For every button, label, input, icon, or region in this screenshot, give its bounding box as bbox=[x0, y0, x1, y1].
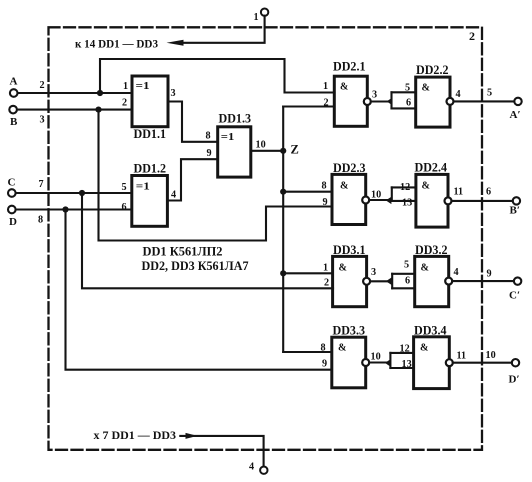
svg-text:4: 4 bbox=[249, 462, 254, 473]
svg-text:5: 5 bbox=[487, 88, 492, 99]
input terminal D bbox=[8, 206, 16, 214]
IC type note bbox=[143, 245, 223, 259]
svg-text:3: 3 bbox=[371, 267, 376, 278]
XOR gate DD1.2 bbox=[132, 176, 168, 227]
svg-text:9: 9 bbox=[207, 148, 212, 159]
svg-text:4: 4 bbox=[454, 267, 459, 278]
svg-text:11: 11 bbox=[454, 187, 464, 198]
terminal A' bbox=[514, 98, 521, 105]
svg-text:4: 4 bbox=[456, 89, 461, 100]
svg-text:&: & bbox=[422, 83, 431, 94]
svg-text:DD1.1: DD1.1 bbox=[134, 127, 167, 141]
wire DD3.3 out bbox=[369, 361, 389, 363]
input terminal B bbox=[9, 106, 17, 114]
junction arrow into DD3.2 bbox=[386, 278, 392, 285]
node C junction bbox=[79, 190, 85, 196]
terminal C' bbox=[514, 277, 521, 284]
svg-text:2: 2 bbox=[40, 80, 45, 91]
wire DD1.3 out (node Z) bbox=[251, 150, 283, 152]
wire Z vertical bus bbox=[282, 107, 284, 353]
svg-text:10: 10 bbox=[486, 350, 496, 361]
svg-text:=1: =1 bbox=[136, 182, 150, 193]
svg-text:DD1.2: DD1.2 bbox=[134, 162, 167, 176]
node D junction bbox=[62, 206, 68, 212]
terminal pin 4 (bottom) bbox=[260, 467, 267, 474]
svg-text:1: 1 bbox=[323, 81, 328, 92]
wire C to DD3.1 pin2 bbox=[82, 193, 333, 288]
svg-text:DD3.1: DD3.1 bbox=[333, 243, 366, 257]
wire DD3.4 input jog bbox=[389, 353, 391, 368]
svg-text:6: 6 bbox=[406, 98, 411, 109]
svg-text:DD2.1: DD2.1 bbox=[333, 60, 366, 74]
svg-text:Z: Z bbox=[291, 143, 299, 157]
wire B to DD2.3 pin9 bbox=[99, 110, 333, 241]
svg-text:1: 1 bbox=[254, 12, 259, 23]
node Z-DD3.1 bbox=[280, 270, 286, 276]
wire DD2.3 out bbox=[369, 199, 390, 201]
svg-text:9: 9 bbox=[322, 359, 327, 370]
svg-text:6: 6 bbox=[405, 276, 410, 287]
svg-text:DD2.3: DD2.3 bbox=[333, 161, 366, 175]
svg-text:1: 1 bbox=[123, 81, 128, 92]
wire Z to DD2.1 pin2 bbox=[283, 105, 334, 107]
svg-text:12: 12 bbox=[400, 182, 410, 193]
svg-text:B: B bbox=[10, 116, 18, 128]
node Z bbox=[280, 148, 286, 154]
terminal pin 1 (top) bbox=[261, 9, 268, 16]
input terminal C bbox=[8, 189, 16, 197]
svg-text:&: & bbox=[338, 343, 347, 354]
wire DD2.2 input jog bbox=[390, 92, 392, 108]
svg-text:5: 5 bbox=[122, 182, 127, 193]
svg-text:3: 3 bbox=[372, 90, 377, 101]
node B junction bbox=[95, 107, 101, 113]
svg-text:&: & bbox=[339, 263, 348, 274]
svg-text:&: & bbox=[421, 263, 430, 274]
svg-text:10: 10 bbox=[371, 352, 381, 363]
wire Z to DD3.3 pin8 bbox=[283, 351, 332, 353]
wire DD3.1 out bbox=[370, 280, 390, 282]
wire D to DD3.3 pin9 bbox=[66, 210, 332, 370]
svg-text:&: & bbox=[422, 181, 431, 192]
wire DD3.2 input jog bbox=[391, 274, 393, 289]
NAND gate DD3.1 bbox=[333, 256, 367, 306]
svg-text:1: 1 bbox=[323, 263, 328, 274]
junction arrow into DD2.4 bbox=[386, 197, 392, 204]
svg-text:В′: В′ bbox=[510, 205, 520, 217]
svg-text:2: 2 bbox=[324, 98, 329, 109]
net label k14 DD1-DD3 bbox=[75, 36, 158, 50]
wire Z to DD3.1 pin1 bbox=[283, 272, 332, 274]
svg-text:C: C bbox=[8, 177, 16, 189]
terminal D' bbox=[512, 359, 519, 366]
XOR gate DD1.3 bbox=[218, 127, 251, 177]
node A junction bbox=[97, 90, 103, 96]
svg-text:12: 12 bbox=[400, 344, 410, 355]
terminal B' bbox=[513, 197, 520, 204]
svg-text:3: 3 bbox=[40, 115, 45, 126]
svg-text:&: & bbox=[420, 343, 429, 354]
wire DD3.4 out to D' bbox=[453, 362, 512, 364]
svg-text:DD2.2: DD2.2 bbox=[416, 63, 449, 77]
wire DD1.2 out to DD1.3 pin9 bbox=[167, 159, 217, 200]
svg-text:DD3.2: DD3.2 bbox=[415, 243, 448, 257]
svg-text:2: 2 bbox=[469, 29, 475, 43]
input terminal A bbox=[10, 89, 18, 97]
dashed IC boundary box bbox=[49, 27, 483, 450]
svg-text:10: 10 bbox=[256, 140, 266, 151]
svg-text:9: 9 bbox=[323, 197, 328, 208]
svg-text:6: 6 bbox=[486, 187, 491, 198]
wire D bbox=[16, 208, 132, 210]
svg-text:&: & bbox=[340, 181, 349, 192]
svg-text:&: & bbox=[340, 82, 348, 93]
svg-text:А′: А′ bbox=[510, 109, 521, 121]
junction arrow into DD3.4 bbox=[385, 359, 391, 366]
svg-text:к 14 DD1 — DD3: к 14 DD1 — DD3 bbox=[75, 36, 158, 50]
svg-text:7: 7 bbox=[39, 179, 44, 190]
NAND gate DD3.3 bbox=[332, 337, 366, 388]
svg-text:х 7 DD1 — DD3: х 7 DD1 — DD3 bbox=[94, 430, 177, 442]
NAND gate DD2.2 bbox=[416, 77, 450, 127]
node 2 (boundary label) bbox=[469, 29, 475, 43]
wire DD1.1 out to DD1.3 pin8 bbox=[168, 102, 218, 142]
wire A bbox=[18, 92, 132, 94]
svg-text:4: 4 bbox=[171, 190, 176, 201]
wire pin1 to arrow bbox=[180, 16, 265, 43]
svg-text:8: 8 bbox=[322, 181, 327, 192]
svg-text:13: 13 bbox=[402, 359, 412, 370]
wire pin4 riser bbox=[180, 436, 263, 467]
svg-text:DD3.3: DD3.3 bbox=[333, 324, 366, 338]
wire DD2.4 input jog bbox=[391, 187, 393, 201]
wire A to DD2.1 pin1 bbox=[100, 59, 335, 93]
net label x7 DD1-DD3 bbox=[94, 430, 177, 442]
svg-text:9: 9 bbox=[487, 269, 492, 280]
svg-text:8: 8 bbox=[206, 131, 211, 142]
wire DD2.2 out to A' bbox=[454, 100, 515, 102]
svg-text:DD2.4: DD2.4 bbox=[415, 161, 448, 175]
NAND gate DD3.2 bbox=[415, 256, 449, 306]
NAND gate DD2.1 bbox=[334, 76, 367, 126]
svg-text:DD1.3: DD1.3 bbox=[219, 112, 252, 126]
XOR gate DD1.1 bbox=[132, 76, 168, 127]
NAND gate DD2.3 bbox=[332, 174, 366, 224]
svg-text:10: 10 bbox=[371, 190, 381, 201]
wire Z to DD2.3 pin8 bbox=[283, 191, 332, 193]
svg-text:С′: С′ bbox=[509, 290, 520, 302]
svg-text:6: 6 bbox=[122, 202, 127, 213]
wire C bbox=[16, 192, 132, 194]
svg-text:DD3.4: DD3.4 bbox=[414, 324, 447, 338]
arrow from x7 label bbox=[186, 433, 198, 439]
svg-text:=1: =1 bbox=[136, 81, 150, 92]
wire B bbox=[17, 109, 132, 111]
node Z-DD2.3 bbox=[280, 189, 286, 195]
svg-text:2: 2 bbox=[324, 278, 329, 289]
wire DD2.1 out bbox=[371, 100, 391, 102]
svg-text:8: 8 bbox=[38, 215, 43, 226]
junction arrow into DD2.2 bbox=[387, 98, 393, 105]
svg-text:DD1 К561ЛП2: DD1 К561ЛП2 bbox=[143, 245, 223, 259]
arrow to k14 label bbox=[167, 40, 184, 46]
svg-text:=1: =1 bbox=[221, 132, 235, 143]
NAND gate DD2.4 bbox=[416, 174, 448, 227]
wire DD2.4 out to B' bbox=[452, 200, 513, 202]
svg-text:5: 5 bbox=[405, 83, 410, 94]
svg-text:D′: D′ bbox=[509, 374, 520, 386]
NAND gate DD3.4 bbox=[414, 337, 450, 389]
svg-text:3: 3 bbox=[171, 88, 176, 99]
svg-text:A: A bbox=[10, 76, 18, 88]
svg-text:2: 2 bbox=[122, 98, 127, 109]
svg-text:8: 8 bbox=[321, 343, 326, 354]
svg-text:D: D bbox=[9, 216, 17, 228]
svg-text:13: 13 bbox=[402, 198, 412, 209]
svg-text:5: 5 bbox=[404, 260, 409, 271]
svg-text:DD2, DD3 К561ЛА7: DD2, DD3 К561ЛА7 bbox=[142, 259, 249, 273]
svg-text:11: 11 bbox=[457, 351, 467, 362]
wire DD3.2 out to C' bbox=[452, 280, 514, 282]
